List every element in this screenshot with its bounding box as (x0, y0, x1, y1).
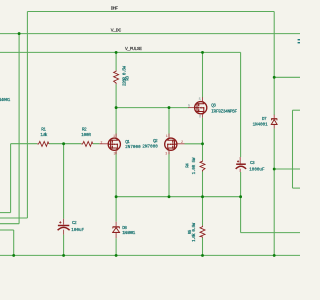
svg-text:2N7000: 2N7000 (142, 145, 158, 149)
svg-text:R4: R4 (186, 163, 190, 168)
svg-text:DHF: DHF (111, 6, 118, 12)
svg-text:C2: C2 (72, 222, 77, 226)
svg-text:G: G (188, 104, 190, 108)
svg-text:R1: R1 (41, 129, 46, 133)
svg-text:220R 0.5W: 220R 0.5W (124, 66, 128, 86)
svg-text:D8: D8 (122, 227, 127, 231)
svg-text:3: 3 (165, 153, 167, 157)
svg-text:Q2: Q2 (153, 140, 158, 144)
svg-text:1.0k: 1.0k (40, 133, 47, 138)
svg-text:V_PULSE: V_PULSE (125, 46, 142, 52)
svg-text:3: 3 (114, 152, 116, 156)
svg-text:2N7000: 2N7000 (125, 146, 141, 150)
svg-text:1: 1 (113, 135, 115, 139)
svg-text:D7: D7 (262, 118, 267, 122)
svg-text:2: 2 (100, 141, 102, 145)
svg-text:S: S (199, 97, 201, 101)
svg-text:C3: C3 (250, 162, 255, 166)
svg-text:1N4001: 1N4001 (122, 232, 135, 236)
svg-text:R2: R2 (82, 129, 87, 133)
svg-text:Q3: Q3 (211, 104, 216, 108)
svg-text:R3: R3 (126, 76, 130, 81)
svg-text:1N4001: 1N4001 (253, 123, 268, 127)
svg-text:IRF9Z34NPBF: IRF9Z34NPBF (211, 110, 237, 114)
svg-text:D: D (199, 115, 201, 119)
svg-text:V_DC: V_DC (111, 27, 122, 33)
svg-text:Q1: Q1 (125, 141, 130, 145)
svg-text:100uF: 100uF (71, 229, 84, 233)
svg-text:1: 1 (166, 135, 168, 139)
svg-text:2: 2 (181, 141, 183, 145)
svg-text:1000uF: 1000uF (249, 169, 265, 173)
svg-text:R5: R5 (189, 229, 193, 234)
svg-text:100R: 100R (81, 134, 91, 138)
svg-text:N4001: N4001 (0, 99, 11, 103)
svg-text:1.0R 5W: 1.0R 5W (193, 157, 197, 174)
